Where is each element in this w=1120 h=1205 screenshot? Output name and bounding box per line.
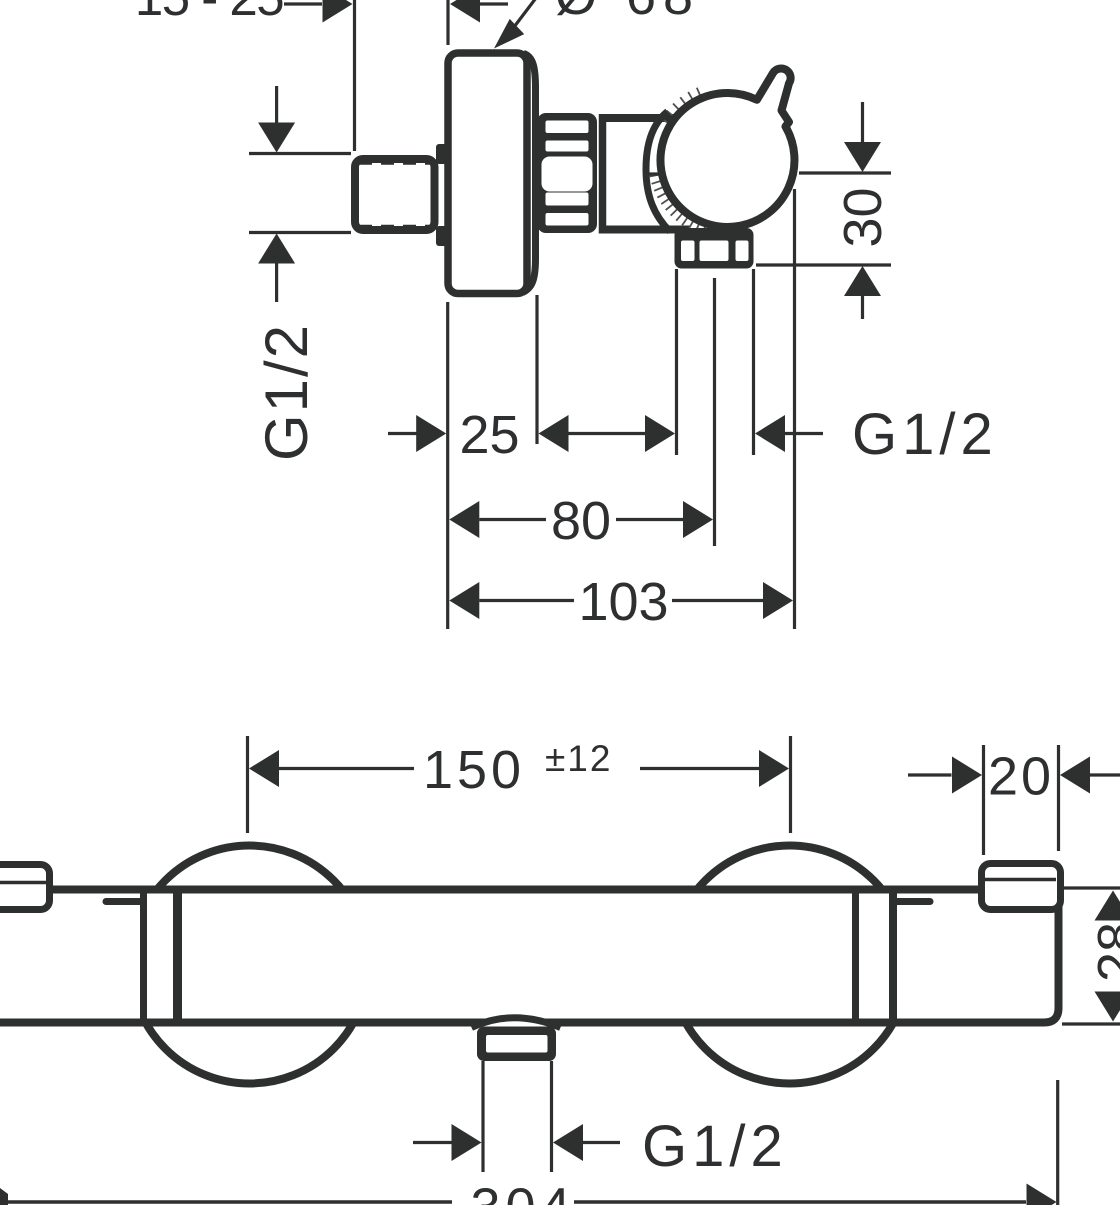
svg-text:25: 25 [459,405,519,465]
svg-text:103: 103 [578,572,668,632]
svg-text:304: 304 [470,1178,575,1205]
svg-text:±12: ±12 [545,738,612,779]
svg-text:G1/2: G1/2 [852,402,998,467]
svg-text:G1/2: G1/2 [253,323,320,461]
svg-text:30: 30 [833,187,893,247]
svg-text:G1/2: G1/2 [642,1114,788,1179]
svg-text:20: 20 [988,747,1054,807]
svg-text:Ø 68: Ø 68 [555,0,700,26]
svg-text:150: 150 [423,740,525,800]
svg-text:80: 80 [551,491,611,551]
svg-text:15 - 25: 15 - 25 [135,0,283,26]
svg-text:28: 28 [1087,922,1120,982]
